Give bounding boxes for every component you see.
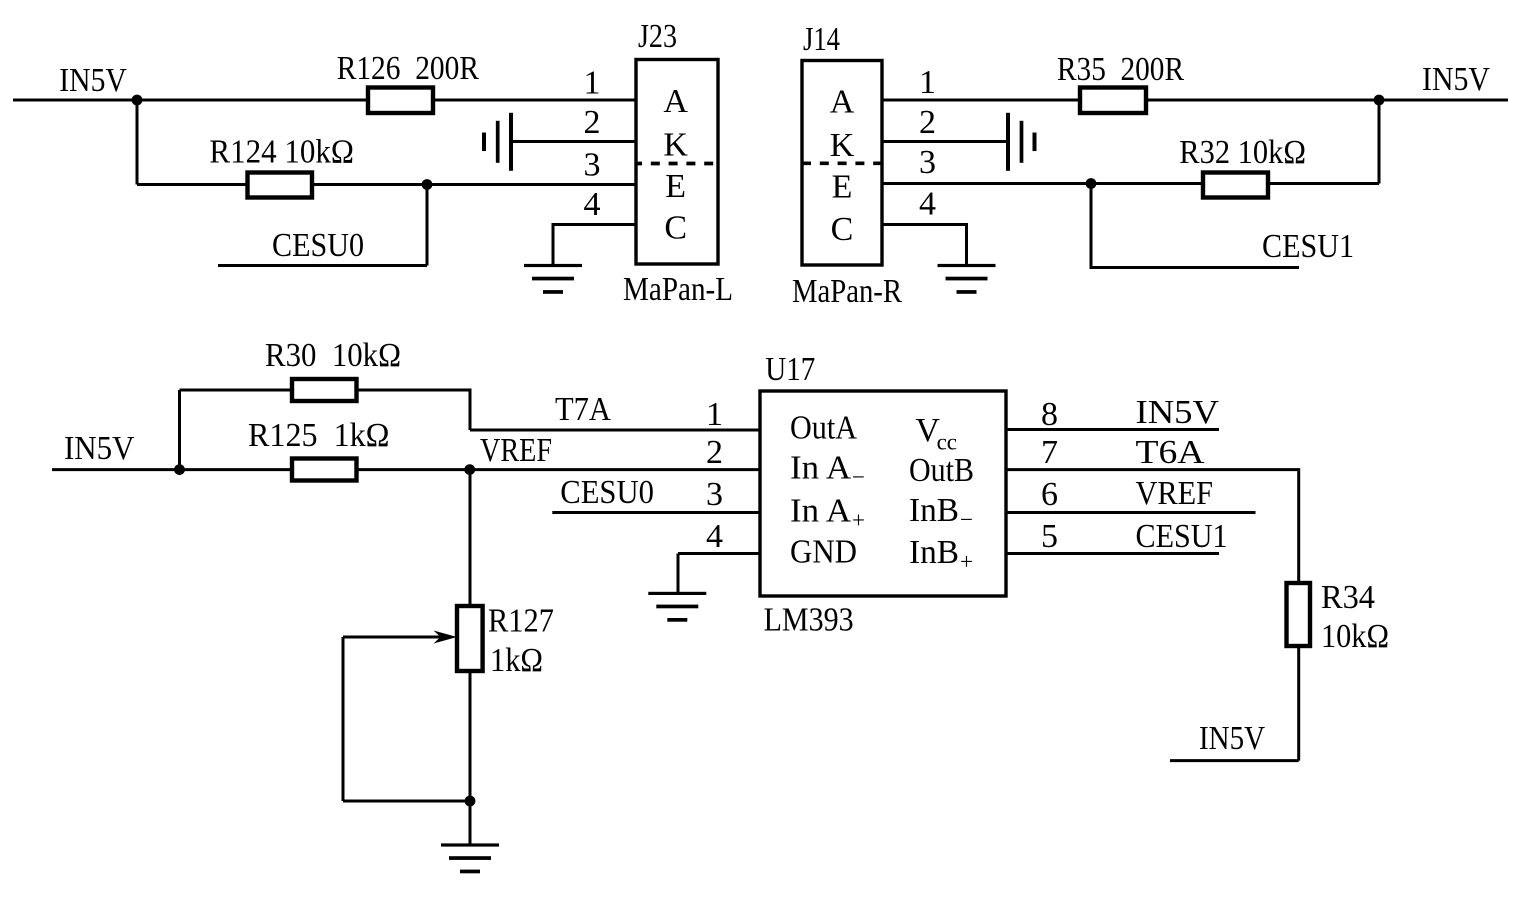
svg-text:MaPan-R: MaPan-R (792, 273, 902, 310)
svg-text:4: 4 (919, 185, 936, 222)
svg-text:7: 7 (1041, 434, 1058, 471)
svg-text:IN5V: IN5V (1199, 720, 1265, 757)
svg-text:2: 2 (584, 104, 601, 141)
svg-text:GND: GND (790, 534, 857, 571)
svg-text:2: 2 (706, 434, 723, 471)
svg-text:−: − (960, 507, 973, 532)
svg-text:3: 3 (584, 147, 601, 184)
svg-text:4: 4 (584, 186, 601, 223)
svg-text:K: K (830, 127, 855, 164)
svg-text:R125 1kΩ: R125 1kΩ (248, 417, 390, 454)
svg-text:R34: R34 (1321, 579, 1375, 616)
svg-text:LM393: LM393 (764, 602, 854, 639)
svg-text:In A: In A (790, 493, 851, 530)
svg-text:T7A: T7A (555, 391, 611, 428)
svg-text:cc: cc (937, 430, 957, 455)
svg-text:K: K (663, 126, 688, 163)
svg-text:IN5V: IN5V (59, 62, 127, 99)
svg-text:OutA: OutA (790, 410, 857, 447)
svg-text:VREF: VREF (480, 432, 552, 469)
svg-text:3: 3 (919, 144, 936, 181)
svg-text:1kΩ: 1kΩ (490, 642, 543, 679)
svg-text:A: A (830, 84, 855, 121)
svg-text:T6A: T6A (1136, 434, 1205, 471)
svg-text:R127: R127 (488, 603, 554, 640)
svg-text:6: 6 (1041, 476, 1058, 513)
svg-text:OutB: OutB (909, 452, 974, 489)
svg-text:3: 3 (706, 476, 723, 513)
svg-text:U17: U17 (765, 351, 815, 388)
svg-text:IN5V: IN5V (1136, 394, 1220, 431)
svg-text:C: C (831, 211, 854, 248)
svg-text:R35 200R: R35 200R (1057, 51, 1184, 88)
svg-text:CESU0: CESU0 (560, 474, 654, 511)
svg-text:InB: InB (909, 492, 959, 529)
svg-text:IN5V: IN5V (1422, 61, 1490, 98)
svg-text:In A: In A (790, 450, 851, 487)
svg-text:R32 10kΩ: R32 10kΩ (1179, 134, 1306, 171)
svg-text:4: 4 (706, 518, 723, 555)
svg-text:8: 8 (1041, 396, 1058, 433)
svg-text:1: 1 (584, 65, 601, 102)
svg-text:1: 1 (706, 396, 723, 433)
svg-text:J14: J14 (803, 21, 840, 58)
svg-text:+: + (852, 508, 865, 533)
svg-text:VREF: VREF (1136, 475, 1214, 512)
svg-text:R124 10kΩ: R124 10kΩ (209, 133, 354, 170)
svg-text:−: − (852, 465, 865, 490)
svg-text:CESU1: CESU1 (1136, 518, 1228, 555)
svg-text:MaPan-L: MaPan-L (623, 271, 733, 308)
svg-text:R126 200R: R126 200R (337, 50, 480, 87)
svg-text:CESU0: CESU0 (272, 227, 364, 264)
svg-text:R30 10kΩ: R30 10kΩ (265, 337, 401, 374)
svg-text:C: C (664, 210, 687, 247)
svg-text:5: 5 (1041, 518, 1058, 555)
svg-text:J23: J23 (638, 18, 677, 55)
svg-text:1: 1 (919, 64, 936, 101)
svg-text:InB: InB (909, 534, 959, 571)
svg-text:IN5V: IN5V (64, 430, 135, 467)
svg-text:CESU1: CESU1 (1262, 228, 1354, 265)
svg-text:A: A (663, 83, 688, 120)
svg-text:+: + (960, 549, 973, 574)
svg-text:2: 2 (919, 104, 936, 141)
svg-text:E: E (832, 169, 853, 206)
svg-text:E: E (665, 168, 686, 205)
svg-text:10kΩ: 10kΩ (1321, 618, 1389, 655)
